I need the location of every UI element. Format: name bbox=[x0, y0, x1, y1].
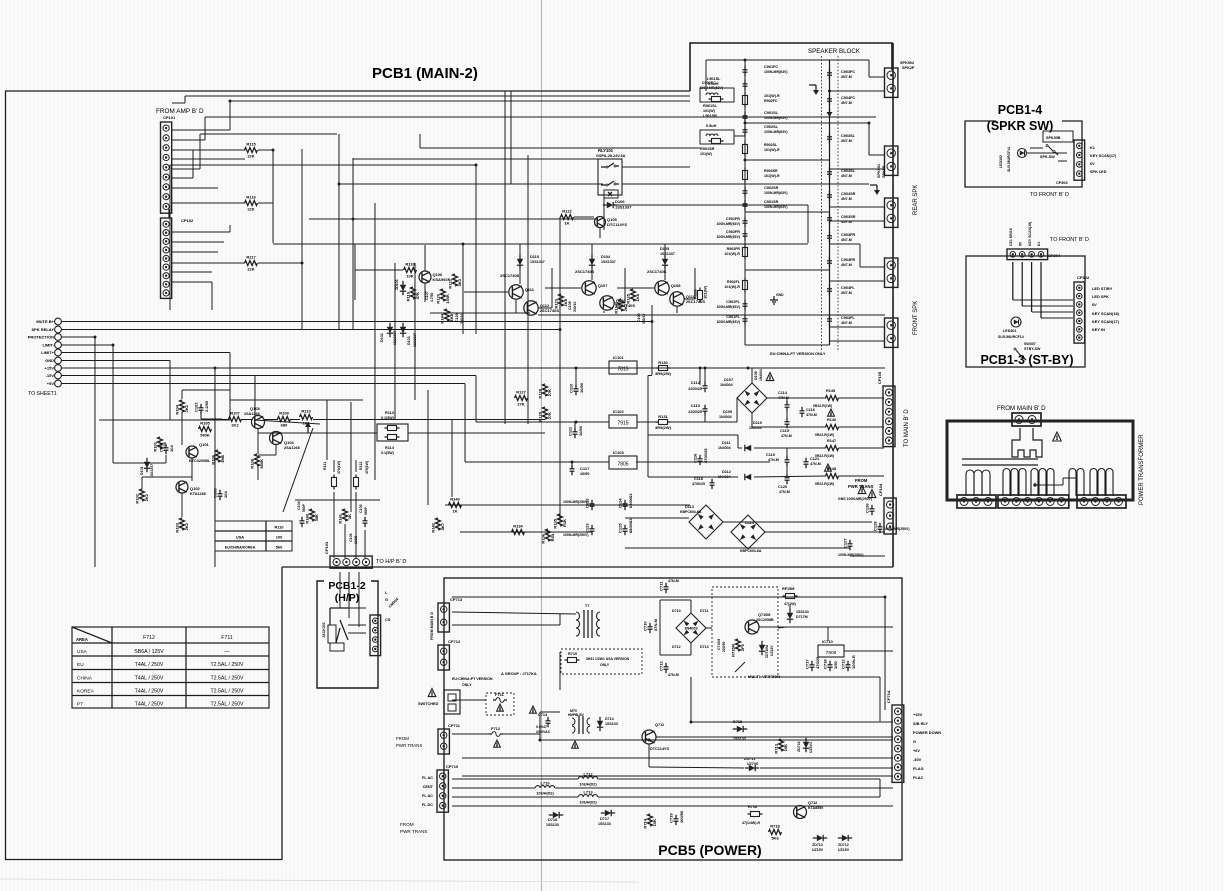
svg-text:R902FC: R902FC bbox=[764, 99, 778, 103]
wire net1b bbox=[229, 101, 231, 130]
svg-text:R901SR: R901SR bbox=[700, 147, 715, 151]
wire capbank1 bbox=[445, 504, 592, 506]
speaker block outer outline bbox=[690, 43, 892, 91]
resistor R135 bbox=[553, 514, 568, 529]
svg-text:PCB1-3 (ST-BY): PCB1-3 (ST-BY) bbox=[980, 353, 1073, 367]
wire amp loop3v bbox=[694, 268, 696, 299]
wire bus p15 bbox=[61, 367, 885, 369]
wire ic710 out bbox=[844, 650, 893, 652]
svg-text:+15V: +15V bbox=[45, 366, 55, 371]
fuse F712 bbox=[489, 726, 503, 736]
svg-text:AREA: AREA bbox=[76, 637, 88, 642]
svg-text:101(W): 101(W) bbox=[703, 109, 716, 113]
svg-text:C110: C110 bbox=[569, 383, 574, 393]
svg-text:2K2: 2K2 bbox=[184, 404, 189, 412]
svg-text:T7: T7 bbox=[585, 604, 589, 608]
svg-text:1SS1337: 1SS1337 bbox=[413, 333, 417, 347]
wire net18 bbox=[301, 149, 303, 330]
resistor R127 bbox=[515, 390, 528, 407]
svg-text:1SS133: 1SS133 bbox=[598, 822, 611, 826]
capacitor C712 bbox=[659, 661, 669, 674]
svg-text:T2.5AL / 250V: T2.5AL / 250V bbox=[211, 689, 245, 695]
svg-text:100N-MR(63V): 100N-MR(63V) bbox=[764, 191, 788, 195]
dotted box MULTI VERSION bbox=[712, 587, 778, 677]
svg-text:27K: 27K bbox=[517, 402, 524, 407]
svg-text:1N4004: 1N4004 bbox=[759, 369, 763, 381]
switch SPK30B box bbox=[1043, 131, 1073, 142]
wire multi arrow bbox=[735, 662, 745, 672]
svg-text:6800/63: 6800/63 bbox=[628, 493, 633, 508]
wire reg1 bbox=[230, 367, 609, 369]
svg-text:R106: R106 bbox=[211, 454, 216, 464]
svg-text:47(1/4W)-R: 47(1/4W)-R bbox=[742, 821, 761, 825]
wire lc q104 bbox=[275, 444, 277, 455]
PCB5 outline bbox=[444, 578, 902, 860]
svg-text:POWER DOWN: POWER DOWN bbox=[913, 730, 941, 735]
resistor R901SR bbox=[709, 139, 724, 144]
wire rail398 bbox=[767, 397, 826, 399]
wire vband2 bbox=[350, 402, 352, 512]
capacitor C904SL bbox=[827, 168, 832, 178]
connector CP302 bbox=[1074, 275, 1090, 343]
svg-text:ZD713: ZD713 bbox=[812, 843, 823, 847]
wires CP304 into box bbox=[1013, 262, 1041, 318]
svg-text:SPK8P: SPK8P bbox=[882, 165, 886, 178]
svg-text:+15V: +15V bbox=[913, 712, 923, 717]
svg-text:CS: CS bbox=[385, 617, 391, 622]
svg-text:CHINA: CHINA bbox=[77, 676, 93, 682]
wire relay out2 bbox=[622, 183, 869, 185]
svg-text:LED302: LED302 bbox=[999, 155, 1003, 168]
wire Q106 coll bbox=[424, 245, 426, 271]
svg-text:RF15M: RF15M bbox=[782, 587, 794, 591]
resistor R147 bbox=[826, 446, 839, 451]
wire net24 bbox=[462, 243, 464, 334]
svg-text:1SS1337: 1SS1337 bbox=[150, 464, 154, 478]
wire capbank5 bbox=[765, 531, 885, 533]
wire p9 bbox=[540, 739, 893, 741]
svg-text:CP712: CP712 bbox=[448, 639, 461, 644]
wire busext1 bbox=[648, 375, 652, 377]
svg-text:3R9(2W): 3R9(2W) bbox=[655, 425, 672, 430]
wire pcb13 h4 bbox=[1041, 317, 1073, 319]
wire lc11 bbox=[141, 477, 143, 489]
svg-text:G: G bbox=[385, 597, 388, 602]
jack JACK301 bbox=[330, 607, 348, 609]
capacitor C711 bbox=[659, 581, 669, 593]
svg-text:1/50: 1/50 bbox=[833, 660, 838, 669]
wire spk out2 bbox=[830, 90, 886, 92]
resistor R128 bbox=[538, 384, 553, 399]
svg-text:G: G bbox=[913, 739, 916, 744]
svg-text:FL DC: FL DC bbox=[422, 803, 433, 807]
svg-text:ZD716: ZD716 bbox=[797, 741, 801, 752]
svg-text:R902FR: R902FR bbox=[727, 247, 741, 251]
ground arrow lc bbox=[307, 427, 309, 433]
svg-text:100/50: 100/50 bbox=[679, 810, 684, 823]
svg-text:R54: R54 bbox=[550, 533, 555, 541]
svg-text:LIMIT-: LIMIT- bbox=[42, 343, 54, 348]
bridge D710-D713 bbox=[676, 613, 706, 643]
wire net4c bbox=[200, 133, 337, 135]
coil L901SR box bbox=[700, 130, 734, 144]
svg-text:LED301: LED301 bbox=[1003, 329, 1017, 333]
capacitor C904FC bbox=[827, 95, 832, 105]
wire net25 bbox=[475, 165, 477, 334]
svg-text:-15V: -15V bbox=[46, 373, 55, 378]
diode D717M bbox=[787, 609, 793, 623]
svg-text:R101: R101 bbox=[153, 441, 158, 451]
wire capbank2 bbox=[460, 531, 592, 533]
svg-text:10UH(02): 10UH(02) bbox=[579, 800, 597, 805]
svg-text:2K2: 2K2 bbox=[144, 493, 149, 501]
wire bus GND v bbox=[169, 361, 171, 421]
svg-text:R116: R116 bbox=[246, 195, 256, 200]
wire C119 up bbox=[786, 448, 788, 458]
svg-text:CP303: CP303 bbox=[1056, 181, 1068, 185]
resistor R136 bbox=[541, 529, 556, 544]
svg-text:C113: C113 bbox=[691, 403, 701, 408]
wire R117 lead bbox=[258, 262, 302, 264]
svg-text:T2.5AL / 250V: T2.5AL / 250V bbox=[211, 702, 245, 708]
wire amp stub3 bbox=[664, 244, 666, 258]
diode D717 bbox=[601, 810, 615, 816]
wire q710 out bbox=[759, 626, 893, 628]
wire spk out7v bbox=[859, 244, 861, 267]
svg-text:KTA1266: KTA1266 bbox=[190, 492, 206, 496]
wire bus LIMITm bbox=[61, 344, 113, 346]
svg-text:FROM: FROM bbox=[396, 736, 409, 741]
svg-text:7815: 7815 bbox=[617, 367, 628, 373]
wire vdrop8 bbox=[651, 305, 653, 375]
svg-text:1K8: 1K8 bbox=[635, 293, 640, 301]
wire hp3 bbox=[348, 632, 366, 634]
svg-text:R102: R102 bbox=[135, 493, 140, 503]
svg-text:D101: D101 bbox=[140, 466, 144, 475]
svg-text:USA: USA bbox=[77, 649, 88, 655]
svg-text:C903FC: C903FC bbox=[841, 70, 855, 74]
wire vdrop5 bbox=[504, 270, 506, 424]
wire lc14 bbox=[181, 493, 183, 517]
wire net5c bbox=[172, 149, 245, 151]
resistor R117 bbox=[245, 255, 258, 272]
wire lc v258 bbox=[257, 428, 259, 454]
capacitor C710 bbox=[643, 618, 659, 633]
connector CP304 bbox=[1007, 249, 1061, 260]
svg-text:GSPA-28.24V.5A: GSPA-28.24V.5A bbox=[596, 154, 626, 158]
wire net14 bbox=[172, 271, 212, 273]
wire amp loop2 bbox=[614, 302, 625, 304]
svg-text:CP102: CP102 bbox=[181, 218, 194, 223]
wire pcb13 h3 bbox=[1032, 311, 1073, 313]
resistor R718 bbox=[769, 824, 782, 841]
resistor R109 bbox=[278, 411, 291, 428]
svg-text:D103: D103 bbox=[407, 336, 411, 345]
svg-text:S/B RLY: S/B RLY bbox=[913, 721, 928, 726]
resistor R141 bbox=[338, 509, 353, 524]
wire spk out1a bbox=[868, 60, 870, 77]
wire p10 bbox=[462, 757, 893, 759]
resistor R112 bbox=[354, 475, 359, 490]
svg-text:100N-MR(63V): 100N-MR(63V) bbox=[716, 235, 740, 239]
power transformer outline bbox=[947, 421, 1133, 500]
svg-text:UZ4V3: UZ4V3 bbox=[809, 742, 813, 753]
wire L901SR feed bbox=[420, 147, 700, 149]
wire p1 bbox=[452, 596, 885, 598]
diode ZD711 bbox=[745, 765, 759, 771]
resistor R140 bbox=[305, 509, 320, 524]
svg-text:C901SL: C901SL bbox=[764, 111, 779, 115]
wire D106 node bbox=[603, 198, 605, 230]
svg-text:C108: C108 bbox=[568, 301, 572, 310]
wire R116 lead bbox=[258, 202, 273, 204]
wire vdrop6 bbox=[527, 315, 529, 424]
wire R145 out bbox=[839, 397, 885, 399]
resistor R113 bbox=[385, 426, 400, 431]
wire lc y419d bbox=[290, 419, 300, 421]
wire t7 in1 bbox=[452, 612, 576, 614]
svg-text:SPK30B: SPK30B bbox=[1046, 136, 1061, 140]
capacitor C116c bbox=[693, 448, 709, 465]
svg-text:CP104: CP104 bbox=[878, 483, 883, 496]
resistor R114 bbox=[385, 435, 400, 440]
wire net17 bbox=[169, 165, 171, 310]
wire Q105 emitter bbox=[599, 228, 601, 238]
svg-text:USA: USA bbox=[236, 535, 244, 540]
svg-text:100: 100 bbox=[276, 535, 283, 540]
wire R146 out bbox=[839, 426, 885, 428]
wire rc2 bbox=[333, 492, 335, 558]
svg-text:3N4003: 3N4003 bbox=[684, 627, 697, 631]
svg-text:2K2: 2K2 bbox=[184, 522, 189, 530]
svg-text:R130: R130 bbox=[658, 360, 668, 365]
wire d111 feed bbox=[737, 435, 739, 448]
svg-text:4N7-M: 4N7-M bbox=[841, 238, 852, 242]
svg-text:4N7-M: 4N7-M bbox=[841, 101, 852, 105]
svg-text:C903FR: C903FR bbox=[841, 233, 855, 237]
capacitor C901SR bbox=[743, 200, 748, 210]
wire R118 feed bbox=[355, 269, 403, 271]
svg-text:D711: D711 bbox=[700, 609, 708, 613]
svg-text:R110: R110 bbox=[301, 409, 311, 414]
svg-text:UZ12V: UZ12V bbox=[770, 645, 774, 656]
svg-text:C101: C101 bbox=[159, 442, 164, 452]
svg-text:R124: R124 bbox=[614, 303, 619, 313]
svg-text:47N-M: 47N-M bbox=[768, 458, 779, 462]
transistor Q104 bbox=[270, 432, 283, 445]
svg-text:R144: R144 bbox=[440, 313, 445, 323]
wire R148 out bbox=[839, 475, 885, 477]
svg-text:K1: K1 bbox=[1037, 241, 1041, 246]
wire lc y433a bbox=[258, 432, 377, 434]
resistor R145 bbox=[826, 396, 839, 401]
svg-text:KBPC604-6A: KBPC604-6A bbox=[740, 549, 762, 553]
svg-text:1SS1337: 1SS1337 bbox=[393, 331, 397, 345]
transistor Q712 bbox=[794, 806, 807, 819]
svg-text:FL AC: FL AC bbox=[422, 794, 433, 798]
svg-text:2SA1266: 2SA1266 bbox=[284, 446, 300, 450]
wire L901SR feedv bbox=[419, 134, 421, 148]
svg-text:C902FR: C902FR bbox=[726, 230, 740, 234]
svg-text:R147: R147 bbox=[827, 439, 836, 443]
wire rail475a bbox=[754, 476, 826, 477]
svg-text:KTA8550: KTA8550 bbox=[808, 806, 823, 810]
svg-text:C710: C710 bbox=[643, 621, 648, 631]
wire vband3 bbox=[427, 390, 429, 505]
svg-text:SPK2P: SPK2P bbox=[902, 66, 915, 70]
svg-text:LIMIT+: LIMIT+ bbox=[41, 350, 54, 355]
wire net10b bbox=[229, 225, 231, 232]
svg-text:47N-M: 47N-M bbox=[668, 673, 679, 677]
wire bus m15 v bbox=[475, 376, 477, 423]
wire net8 bbox=[272, 150, 274, 243]
main board right edge bbox=[892, 43, 894, 567]
svg-text:C903SL: C903SL bbox=[841, 134, 856, 138]
svg-text:5K6: 5K6 bbox=[771, 836, 779, 841]
wire p13 bbox=[649, 767, 744, 768]
wire br bot bbox=[660, 654, 691, 656]
svg-text:47N-M: 47N-M bbox=[810, 462, 821, 466]
connector SPK front1 bbox=[885, 258, 898, 287]
svg-text:SW307: SW307 bbox=[1024, 342, 1036, 346]
svg-text:C103: C103 bbox=[213, 488, 218, 498]
resistor R143 bbox=[449, 497, 462, 514]
svg-text:PT: PT bbox=[77, 702, 83, 708]
svg-text:4N7-M: 4N7-M bbox=[841, 174, 852, 178]
resistor R901SL bbox=[709, 97, 724, 102]
capacitor C126 bbox=[865, 503, 875, 516]
resistor R902FR bbox=[743, 245, 748, 260]
svg-text:C125: C125 bbox=[618, 523, 623, 533]
bridge D113 bbox=[689, 505, 723, 539]
wire mid5 bbox=[648, 476, 738, 478]
connector CP101 bbox=[161, 115, 177, 213]
svg-text:2K2: 2K2 bbox=[231, 423, 239, 428]
svg-text:D112: D112 bbox=[722, 470, 731, 474]
wire net5b bbox=[192, 150, 194, 178]
wire p1v bbox=[884, 597, 886, 710]
wire net13 bbox=[172, 262, 245, 264]
svg-text:1SS133: 1SS133 bbox=[796, 610, 809, 614]
transistor Q108 bbox=[655, 281, 681, 295]
connector CP104 bbox=[878, 483, 896, 534]
bridge D107-D110 bbox=[737, 383, 767, 413]
svg-text:KEY SCAN(17): KEY SCAN(17) bbox=[1090, 154, 1117, 158]
fuse F711 bbox=[493, 692, 507, 702]
wire spk out1b bbox=[869, 76, 885, 78]
wire amp mid bbox=[430, 312, 530, 314]
connector SPK902 bbox=[885, 68, 898, 97]
wire p16 bbox=[775, 676, 880, 678]
svg-text:R122: R122 bbox=[562, 209, 572, 214]
svg-text:L712: L712 bbox=[583, 772, 593, 777]
switch SPK SW sym bbox=[1048, 146, 1053, 151]
svg-text:Q102: Q102 bbox=[190, 486, 201, 491]
svg-text:2SC1740S: 2SC1740S bbox=[500, 273, 520, 278]
svg-text:R140: R140 bbox=[305, 513, 310, 523]
wire p7 bbox=[691, 721, 893, 723]
svg-text:C902SR: C902SR bbox=[764, 186, 779, 190]
resistor R118 bbox=[404, 262, 417, 279]
capacitor C110 bbox=[569, 382, 585, 395]
relay contact 2 bbox=[601, 184, 606, 186]
connector CP712 bbox=[438, 639, 461, 670]
svg-text:Q108: Q108 bbox=[671, 283, 682, 288]
svg-text:GND: GND bbox=[776, 293, 784, 297]
svg-text:R112: R112 bbox=[359, 462, 363, 470]
svg-text:100N-R: 100N-R bbox=[851, 655, 856, 669]
wire net32 bbox=[185, 95, 690, 97]
warning sym cp104 bbox=[858, 486, 866, 494]
svg-text:560P: 560P bbox=[364, 506, 368, 515]
diode D716 bbox=[549, 812, 563, 818]
svg-text:R714: R714 bbox=[643, 818, 648, 828]
resistor R116 bbox=[245, 195, 258, 212]
PCB1 main board outline bbox=[6, 91, 691, 860]
svg-text:1K: 1K bbox=[347, 514, 352, 519]
wire net29 bbox=[204, 116, 206, 118]
connector CP303 bbox=[1074, 140, 1085, 180]
svg-text:330/10: 330/10 bbox=[573, 302, 577, 312]
svg-text:CP105: CP105 bbox=[877, 371, 882, 384]
diode D112 bbox=[745, 474, 751, 480]
wire amp base1 bbox=[464, 291, 508, 293]
warn c714 bbox=[530, 706, 537, 713]
svg-text:101(W)-R: 101(W)-R bbox=[764, 148, 780, 152]
svg-text:0.0047: 0.0047 bbox=[536, 725, 547, 729]
svg-text:101(W)-R: 101(W)-R bbox=[724, 285, 740, 289]
wire net6 bbox=[172, 187, 218, 189]
diode ZD713 bbox=[813, 835, 827, 841]
svg-text:C124: C124 bbox=[618, 498, 623, 508]
diode D103 bbox=[400, 323, 406, 337]
wire hp1 bbox=[348, 607, 366, 609]
resistor R142 bbox=[431, 518, 446, 533]
svg-text:100N-MR(250V): 100N-MR(250V) bbox=[563, 500, 588, 504]
svg-text:IC102: IC102 bbox=[613, 409, 624, 414]
resistor R126 bbox=[693, 285, 708, 302]
svg-text:3K3: 3K3 bbox=[457, 278, 462, 286]
svg-text:R128: R128 bbox=[538, 388, 543, 398]
capacitor C903SR bbox=[827, 214, 832, 224]
wire capbank3 bbox=[625, 517, 689, 519]
resistor R902FC bbox=[743, 93, 748, 108]
wire spk top rail bbox=[706, 59, 869, 61]
wire amp loop2v bbox=[624, 268, 626, 303]
wire pcb14 w2 bbox=[1027, 152, 1067, 154]
wire net1c bbox=[230, 100, 690, 102]
capacitor C104s bbox=[300, 517, 305, 527]
svg-text:6V: 6V bbox=[1018, 241, 1022, 246]
svg-text:0R22-R(1W): 0R22-R(1W) bbox=[815, 433, 834, 437]
wire amp stub4 bbox=[519, 266, 521, 284]
svg-text:47N-M: 47N-M bbox=[653, 618, 658, 631]
transformer T701 bbox=[576, 604, 600, 638]
capacitor C128 bbox=[873, 521, 883, 534]
wire p12 bbox=[648, 744, 650, 767]
warning sw701 bbox=[428, 689, 436, 697]
svg-text:22K: 22K bbox=[247, 154, 254, 159]
svg-text:C904FR: C904FR bbox=[841, 258, 855, 262]
svg-text:D102: D102 bbox=[380, 333, 384, 342]
wire f2 bbox=[452, 733, 489, 735]
coil L710 bbox=[535, 781, 554, 796]
svg-text:PCB5 (POWER): PCB5 (POWER) bbox=[658, 842, 761, 858]
wire spk out6 bbox=[830, 220, 886, 222]
wire amp v1 bbox=[515, 300, 517, 313]
svg-text:Q711: Q711 bbox=[655, 723, 664, 727]
svg-text:EU/CHINA/KOREA: EU/CHINA/KOREA bbox=[225, 546, 256, 550]
